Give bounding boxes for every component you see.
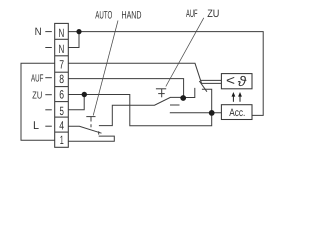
svg-text:8: 8 xyxy=(59,72,64,86)
svg-text:<: < xyxy=(226,72,235,88)
svg-text:5: 5 xyxy=(60,104,65,118)
svg-text:6: 6 xyxy=(59,87,64,101)
svg-text:ϑ: ϑ xyxy=(238,73,248,89)
svg-text:1: 1 xyxy=(60,133,64,147)
svg-text:AUF: AUF xyxy=(186,8,198,20)
svg-text:L: L xyxy=(33,120,39,132)
svg-text:AUTO: AUTO xyxy=(95,10,112,22)
svg-text:AUF: AUF xyxy=(31,74,43,85)
svg-text:N: N xyxy=(35,26,42,38)
svg-text:ZU: ZU xyxy=(207,8,219,20)
svg-text:4: 4 xyxy=(59,118,64,132)
svg-text:ZU: ZU xyxy=(32,90,42,101)
svg-text:N: N xyxy=(59,42,65,56)
svg-text:7: 7 xyxy=(59,57,64,71)
svg-text:N: N xyxy=(59,26,65,40)
svg-text:Acc.: Acc. xyxy=(229,107,245,119)
svg-text:HAND: HAND xyxy=(122,10,142,22)
